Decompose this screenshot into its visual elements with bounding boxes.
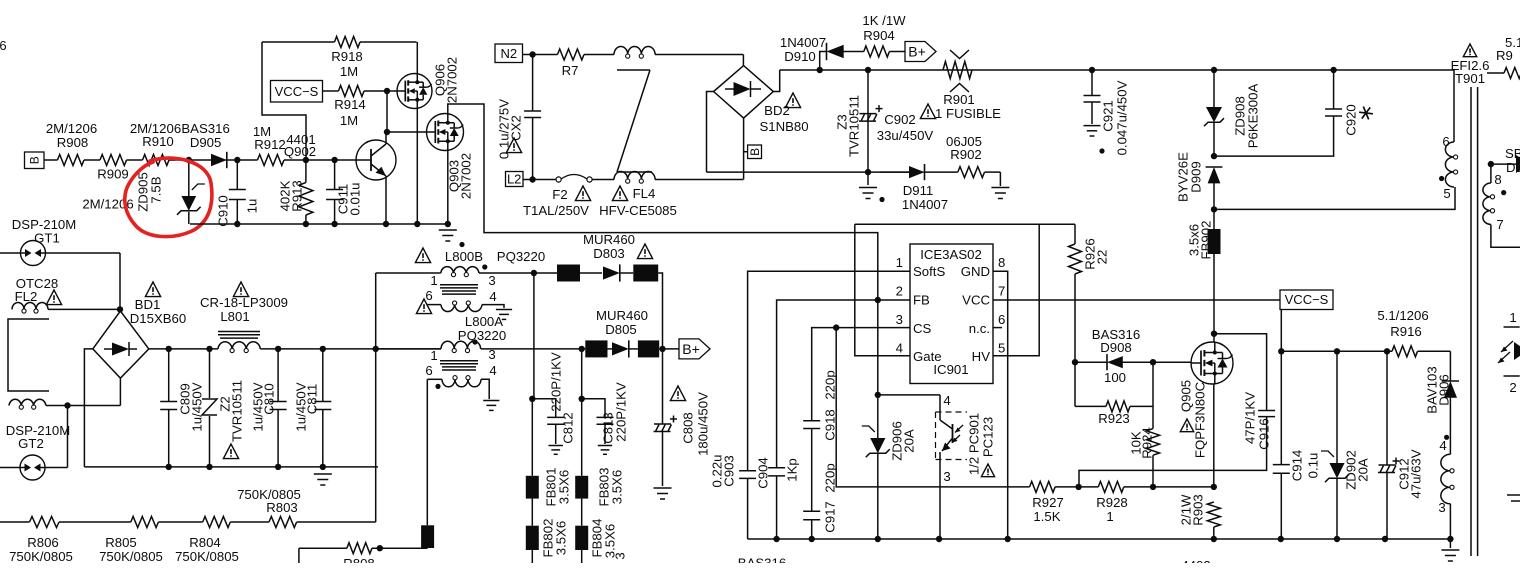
wire BD1 bottom	[119, 378, 121, 405]
diode D906	[1424, 351, 1459, 437]
wire C916 top	[1214, 334, 1267, 411]
wire VCC-S down	[1280, 310, 1282, 352]
wire bridge out right	[773, 70, 779, 92]
node N2	[495, 44, 523, 63]
svg-text:3.5X6: 3.5X6	[609, 470, 624, 504]
svg-text:GND: GND	[961, 264, 990, 279]
wire	[297, 521, 376, 523]
svg-text:R804: R804	[189, 535, 221, 550]
wire	[284, 159, 356, 161]
resistor R806	[9, 517, 73, 565]
spark gap GT2	[0, 423, 70, 480]
svg-text:6: 6	[998, 312, 1005, 327]
wire BD1 top	[119, 309, 121, 311]
wire to T901 pin5	[1214, 187, 1455, 209]
resistor R903	[1178, 494, 1220, 539]
svg-text:L2: L2	[507, 172, 521, 187]
svg-text:C914: C914	[1289, 450, 1304, 482]
svg-text:D909: D909	[1188, 161, 1203, 193]
resistor R910	[130, 121, 181, 166]
photodiode pins right edge	[1498, 310, 1520, 395]
svg-text:0.01u: 0.01u	[347, 182, 362, 215]
zener ZD908	[1204, 70, 1260, 156]
node dot R910/D905/ZD905	[186, 157, 192, 163]
node dot ZD908	[1211, 67, 1217, 73]
svg-text:7: 7	[998, 284, 1005, 299]
svg-text:8: 8	[998, 255, 1005, 270]
svg-text:R808: R808	[343, 556, 375, 563]
wire pin7 VCC	[993, 299, 1280, 301]
svg-text:3: 3	[488, 273, 495, 288]
ground	[991, 188, 1009, 199]
capacitor C914	[1273, 351, 1321, 539]
wire bridge left corner	[707, 92, 714, 173]
ferrite bead FB804	[575, 519, 627, 563]
node dot D803 junction	[531, 270, 537, 276]
svg-text:T901: T901	[1455, 71, 1485, 86]
resistor R904	[862, 13, 906, 57]
wire pin5 HV	[993, 224, 1039, 355]
choke FL4 top winding	[614, 47, 655, 59]
node dot C813 branch	[579, 396, 585, 402]
svg-text:P6KE300A: P6KE300A	[1245, 84, 1260, 149]
svg-text:1: 1	[1106, 509, 1113, 524]
wire	[230, 521, 269, 523]
node dot Q905 source	[1211, 484, 1217, 490]
text fragment 6 at left edge	[0, 38, 7, 53]
svg-text:R7: R7	[562, 63, 579, 78]
wire B to R908	[44, 159, 58, 161]
node dot C921	[1089, 67, 1095, 73]
resistor R908	[46, 121, 97, 166]
svg-text:C903: C903	[721, 455, 736, 487]
svg-text:3: 3	[488, 347, 495, 362]
node L2	[506, 172, 524, 187]
zener ZD906	[862, 395, 917, 539]
node dots on DC line	[166, 346, 379, 352]
svg-text:4403: 4403	[1181, 558, 1210, 563]
node dot D908 right	[1150, 359, 1156, 365]
choke FL2 bottom winding	[9, 399, 120, 409]
svg-text:220P/1KV: 220P/1KV	[548, 352, 563, 412]
wire pin1 SoftS	[748, 271, 910, 471]
svg-text:L801: L801	[220, 309, 249, 324]
svg-text:C921: C921	[1100, 100, 1115, 132]
wire	[655, 179, 743, 181]
red annotation circle around ZD905	[125, 158, 212, 236]
diode D911	[880, 164, 948, 212]
transformer T901 core	[1471, 87, 1478, 556]
svg-text:2N7002: 2N7002	[458, 153, 473, 199]
wire	[1055, 486, 1098, 488]
svg-text:Q905: Q905	[1178, 380, 1193, 412]
varistor Z2	[202, 349, 244, 467]
svg-text:750K/0805: 750K/0805	[9, 549, 73, 563]
mosfet Q906	[397, 57, 459, 109]
svg-text:220P/1KV: 220P/1KV	[613, 382, 628, 442]
box VCC-S right	[1280, 290, 1333, 310]
svg-text:FB902: FB902	[1198, 221, 1213, 260]
capacitor C813	[582, 382, 629, 454]
node dots on minus line	[166, 464, 326, 470]
zener ZD902	[1321, 351, 1370, 539]
diode D910	[780, 35, 844, 70]
node dot C920 top	[1330, 67, 1336, 73]
transformer L800B secondary	[427, 301, 512, 320]
svg-text:R805: R805	[105, 535, 137, 550]
transformer T901 primary winding	[1439, 70, 1458, 201]
wire gate down	[386, 91, 388, 132]
diode D9xx partial right edge	[1488, 146, 1520, 175]
wire	[584, 54, 614, 56]
svg-text:1N4007: 1N4007	[902, 197, 948, 212]
svg-text:R904: R904	[863, 28, 895, 43]
wire GT1 to bridge	[119, 253, 121, 309]
svg-text:S1NB80: S1NB80	[759, 119, 808, 134]
svg-text:R902: R902	[950, 147, 982, 162]
svg-text:R910: R910	[142, 134, 174, 149]
capacitor C911	[326, 160, 362, 224]
svg-text:3.5X6: 3.5X6	[556, 470, 571, 504]
wire DC minus line	[707, 171, 910, 173]
text fragment 4403 bottom	[1181, 558, 1210, 568]
resistor R805	[99, 517, 163, 565]
svg-text:BD1: BD1	[135, 297, 161, 312]
svg-text:220p: 220p	[822, 370, 837, 399]
IC U901 ICE3AS02 box	[910, 244, 993, 384]
resistor R7	[558, 49, 585, 78]
svg-text:D803: D803	[593, 246, 625, 261]
svg-text:2: 2	[896, 284, 903, 299]
node dot Z3/C902 top	[865, 67, 871, 73]
choke FL2 core bracket	[8, 319, 49, 391]
svg-text:Q902: Q902	[284, 144, 316, 159]
svg-text:8: 8	[1494, 172, 1501, 187]
svg-text:N2: N2	[500, 46, 517, 61]
svg-text:R806: R806	[27, 535, 59, 550]
ferrite bead FB802	[526, 519, 569, 563]
svg-text:HV: HV	[972, 349, 991, 364]
zener ZD905	[135, 160, 205, 224]
resistor R918	[262, 37, 417, 80]
resistor R912	[253, 124, 286, 166]
node dot D805 branch	[579, 346, 585, 352]
ground	[859, 172, 885, 202]
capacitor C912	[1378, 351, 1423, 539]
wire minus line	[84, 466, 378, 468]
wire vertical L800B pin1 to R803	[375, 273, 377, 522]
ground	[439, 230, 465, 247]
wire	[985, 172, 1001, 186]
svg-text:5: 5	[998, 341, 1005, 356]
svg-text:R927: R927	[1032, 495, 1064, 510]
svg-text:1M: 1M	[340, 113, 358, 128]
svg-text:3: 3	[943, 469, 950, 484]
svg-text:CS: CS	[913, 321, 932, 336]
wire L800A pin6 down	[426, 379, 428, 525]
wire pin8 GND	[993, 271, 1008, 539]
node dot C812 branch	[529, 396, 535, 402]
svg-text:1: 1	[430, 273, 437, 288]
resistor R9xx partial top right	[1487, 35, 1520, 79]
svg-text:1: 1	[1509, 310, 1516, 325]
svg-text:SoftS: SoftS	[913, 264, 945, 279]
node B (bridge)	[744, 145, 762, 159]
svg-text:20A: 20A	[901, 429, 916, 453]
bottom rail	[748, 538, 1451, 540]
svg-text:VCC−S: VCC−S	[275, 84, 319, 99]
capacitor C917	[803, 463, 837, 539]
wire Q906 drain	[416, 42, 418, 74]
node dot FL2 top	[117, 306, 123, 312]
svg-text:3: 3	[612, 552, 627, 559]
svg-text:1N4007: 1N4007	[780, 35, 826, 50]
capacitor C811	[293, 349, 331, 467]
wire	[1124, 486, 1214, 488]
svg-text:R803: R803	[266, 500, 298, 515]
svg-text:R928: R928	[1096, 495, 1128, 510]
svg-text:1/2 PC901: 1/2 PC901	[966, 413, 981, 475]
svg-text:PQ3220: PQ3220	[458, 328, 506, 343]
svg-text:C812: C812	[560, 412, 575, 444]
svg-text:C920: C920	[1343, 104, 1358, 136]
capacitor CX2	[496, 55, 541, 180]
capacitor C921	[1084, 70, 1130, 155]
svg-text:FQPF3N80C: FQPF3N80C	[1192, 381, 1207, 458]
inductor L801	[200, 282, 288, 353]
node dot CS branch	[833, 324, 839, 330]
wire	[659, 348, 679, 350]
svg-text:L800A: L800A	[465, 314, 503, 329]
svg-text:7: 7	[1496, 217, 1503, 232]
wire	[923, 171, 958, 173]
svg-text:4: 4	[489, 363, 496, 378]
stub pin6 nc	[993, 327, 1002, 329]
svg-text:C810: C810	[261, 383, 276, 415]
wire pin3 CS	[812, 328, 910, 421]
main rail top	[780, 69, 1454, 71]
node dot Q903wire/PC901	[875, 392, 881, 398]
svg-text:BD2: BD2	[764, 103, 790, 118]
transformer T901 winding 4-3	[1438, 435, 1454, 539]
svg-text:C916: C916	[1256, 418, 1271, 450]
svg-text:1: 1	[896, 255, 903, 270]
svg-text:33u/450V: 33u/450V	[877, 128, 934, 143]
svg-text:20A: 20A	[1355, 458, 1370, 482]
svg-text:PC123: PC123	[980, 417, 995, 457]
svg-text:C917: C917	[822, 501, 837, 533]
bridge BD1	[93, 282, 186, 378]
wire Q906 source	[416, 109, 418, 225]
svg-text:D15XB60: D15XB60	[130, 311, 186, 326]
svg-text:2: 2	[1509, 380, 1516, 395]
wire BD1 left	[84, 349, 92, 467]
node dot CX2 top	[529, 51, 535, 57]
svg-text:CX2: CX2	[508, 115, 523, 141]
svg-text:C902: C902	[884, 112, 916, 127]
svg-text:0.047u/450V: 0.047u/450V	[1114, 80, 1129, 155]
svg-text:1u: 1u	[244, 199, 259, 214]
svg-text:R909: R909	[97, 167, 129, 182]
svg-text:FL4: FL4	[633, 186, 656, 201]
svg-text:GT1: GT1	[34, 231, 60, 246]
svg-text:FB: FB	[913, 293, 930, 308]
svg-text:100: 100	[1104, 370, 1126, 385]
svg-text:HFV-CE5085: HFV-CE5085	[599, 203, 677, 218]
svg-text:T1AL/250V: T1AL/250V	[523, 203, 589, 218]
svg-text:4: 4	[489, 289, 496, 304]
node dot D905/C910	[234, 157, 240, 163]
svg-text:R916: R916	[1390, 324, 1422, 339]
wire	[619, 272, 633, 274]
svg-text:BAS316: BAS316	[181, 121, 229, 136]
svg-text:6: 6	[1442, 134, 1449, 149]
transformer T901 labels	[1451, 44, 1490, 86]
wire	[158, 521, 202, 523]
svg-text:22: 22	[1094, 250, 1109, 265]
svg-text:TVR10511: TVR10511	[229, 380, 244, 442]
transformer L800B	[376, 248, 546, 304]
svg-text:C904: C904	[755, 457, 770, 489]
svg-text:D805: D805	[605, 322, 637, 337]
svg-text:F2: F2	[552, 187, 567, 202]
ferrite bead FB803	[575, 399, 624, 526]
capacitor C812	[532, 352, 575, 454]
capacitor C920	[1325, 70, 1373, 136]
svg-text:1 FUSIBLE: 1 FUSIBLE	[935, 106, 1001, 121]
spark gap GT1	[0, 217, 120, 266]
ferrite bead	[638, 340, 659, 357]
resistor R913	[277, 160, 313, 224]
svg-text:D906: D906	[1436, 374, 1451, 406]
svg-text:R908: R908	[57, 135, 89, 150]
transformer L800A secondary	[427, 376, 499, 411]
capacitor C903 labels	[709, 454, 736, 487]
wire	[523, 54, 558, 56]
node dot R913 junction	[303, 157, 309, 163]
capacitor C903	[739, 471, 756, 539]
wire	[655, 55, 743, 66]
svg-text:GT2: GT2	[18, 436, 44, 451]
svg-text:Gate: Gate	[913, 349, 942, 364]
svg-text:R924: R924	[1139, 427, 1154, 459]
svg-text:R913: R913	[289, 180, 304, 212]
svg-text:D908: D908	[1100, 340, 1132, 355]
wire L800B down	[533, 273, 535, 399]
node dot CX2 bottom	[529, 176, 535, 182]
pin numbers	[896, 255, 1006, 356]
svg-text:BAS316: BAS316	[738, 556, 786, 564]
resistor R916	[1377, 308, 1450, 357]
resistor R926	[1069, 224, 1110, 406]
svg-text:R9: R9	[1496, 48, 1513, 63]
resistor chain line	[0, 521, 30, 523]
svg-text:R918: R918	[331, 49, 363, 64]
svg-text:MUR460: MUR460	[583, 232, 635, 247]
svg-text:3.5X6: 3.5X6	[553, 521, 568, 555]
svg-text:5.1/1206: 5.1/1206	[1377, 308, 1428, 323]
svg-text:B+: B+	[682, 341, 700, 357]
diode D909	[1175, 152, 1222, 210]
ferrite bead	[633, 265, 658, 282]
wire D803 branch	[534, 272, 557, 274]
node dot gate junction	[384, 88, 390, 94]
ground at rail end	[1441, 539, 1459, 561]
node dot ZD908/D909/C920	[1211, 153, 1217, 159]
capacitor C810	[250, 349, 286, 467]
text fragment BAS316 bottom	[738, 556, 786, 568]
svg-text:D905: D905	[190, 135, 222, 150]
svg-text:R923: R923	[1098, 411, 1130, 426]
diode D805	[596, 308, 648, 358]
svg-text:750K/0805: 750K/0805	[175, 549, 239, 563]
fuse F2	[523, 175, 614, 219]
node dot D909/T901	[1211, 206, 1217, 212]
svg-text:750K/0805: 750K/0805	[99, 549, 163, 563]
svg-text:R914: R914	[334, 97, 366, 112]
choke FL4 core Z	[617, 70, 652, 172]
svg-text:6: 6	[425, 288, 432, 303]
svg-text:1M: 1M	[340, 64, 358, 79]
ferrite bead FB902	[1186, 209, 1220, 333]
svg-text:IC901: IC901	[933, 362, 968, 377]
svg-text:6: 6	[425, 363, 432, 378]
svg-text:VCC: VCC	[962, 293, 990, 308]
wire Q905 drain	[1213, 334, 1215, 342]
resistor R803	[237, 487, 301, 528]
capacitor C916	[1079, 392, 1275, 487]
optocoupler PC901 phototransistor	[936, 393, 996, 539]
resistor R804	[175, 517, 239, 565]
svg-text:D911: D911	[903, 183, 934, 198]
node dot Q905 drain	[1211, 331, 1217, 337]
node dot Q902 collector	[384, 129, 390, 135]
resistor R902	[946, 134, 984, 178]
ground partial right edge	[1507, 495, 1520, 501]
wire	[523, 179, 553, 181]
node dot VCCS net	[1278, 348, 1284, 354]
svg-text:0.1u: 0.1u	[1305, 453, 1320, 479]
wire	[842, 51, 864, 53]
wire pin4 Gate	[855, 224, 910, 355]
svg-text:ICE3AS02: ICE3AS02	[920, 247, 982, 262]
flag B+ secondary	[679, 339, 710, 359]
wire	[225, 159, 257, 161]
svg-text:47P/1KV: 47P/1KV	[1242, 392, 1257, 444]
svg-text:R912: R912	[254, 137, 286, 152]
svg-text:C910: C910	[215, 195, 230, 227]
wire Q903 source	[447, 151, 449, 225]
wire	[169, 159, 211, 161]
ferrite bead	[421, 525, 434, 548]
svg-text:180u/450V: 180u/450V	[695, 392, 710, 456]
fusible resistor R901	[935, 50, 1001, 121]
resistor R923	[1075, 401, 1153, 426]
pin labels right	[961, 264, 991, 364]
svg-text:4: 4	[943, 393, 950, 408]
svg-text:1Kp: 1Kp	[784, 458, 799, 481]
wire	[580, 272, 602, 274]
capacitor C904	[755, 457, 799, 539]
capacitor C910	[215, 160, 259, 227]
svg-text:1: 1	[430, 348, 437, 363]
svg-text:4: 4	[1439, 438, 1446, 453]
wire to PC901	[878, 394, 940, 396]
svg-text:3: 3	[896, 312, 903, 327]
pin labels left	[913, 264, 945, 364]
svg-text:B: B	[28, 156, 42, 164]
wire Q905 source	[1213, 384, 1215, 487]
